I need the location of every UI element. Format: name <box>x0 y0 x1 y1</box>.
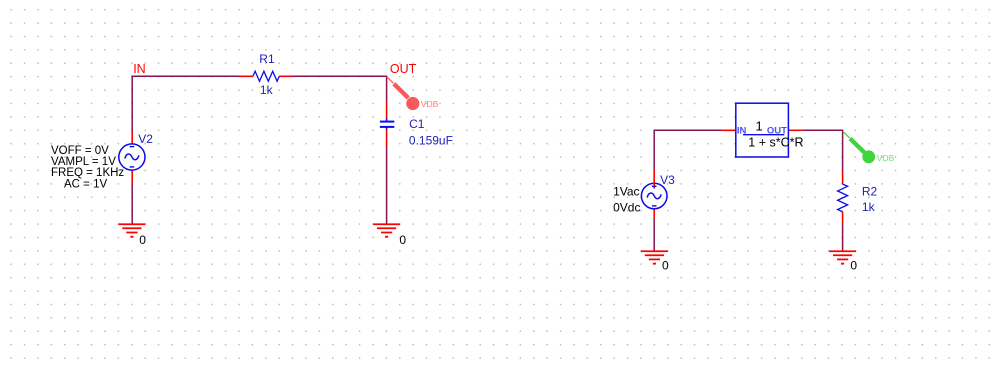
wire <box>653 219 655 251</box>
svg-text:0Vdc: 0Vdc <box>613 201 640 215</box>
svg-text:0: 0 <box>662 258 669 272</box>
svg-text:V3: V3 <box>660 173 675 187</box>
V3 attribute labels <box>613 185 640 215</box>
svg-text:1k: 1k <box>862 200 876 214</box>
svg-text:1Vac: 1Vac <box>613 185 639 199</box>
ground (V3) <box>641 251 669 272</box>
svg-text:OUT: OUT <box>390 62 417 76</box>
resistor R2 <box>838 171 878 225</box>
svg-text:R1: R1 <box>259 52 275 66</box>
wire <box>842 224 844 251</box>
wire <box>386 147 388 225</box>
voltage source V2 <box>119 131 153 183</box>
svg-text:1: 1 <box>756 118 763 133</box>
svg-text:V2: V2 <box>138 132 153 146</box>
wire <box>654 130 722 170</box>
wire <box>803 130 843 170</box>
probe VDB (red) <box>387 77 439 110</box>
svg-text:1k: 1k <box>260 83 274 97</box>
svg-text:VDB: VDB <box>421 99 439 109</box>
voltage source V3 <box>641 170 675 219</box>
ground (R2) <box>829 251 857 272</box>
svg-text:0: 0 <box>399 233 406 247</box>
svg-text:0: 0 <box>850 258 857 272</box>
probe VDB (green) <box>843 131 895 163</box>
V2 attribute labels <box>51 145 124 191</box>
wire <box>131 183 133 224</box>
capacitor C1 <box>380 102 453 147</box>
svg-text:AC = 1V: AC = 1V <box>64 179 107 191</box>
ground (V2) <box>118 224 146 247</box>
svg-text:0: 0 <box>139 233 146 247</box>
resistor R1 <box>240 52 292 97</box>
svg-text:C1: C1 <box>409 117 425 131</box>
wire <box>292 76 386 102</box>
svg-text:VDB: VDB <box>877 153 895 163</box>
svg-text:0.159uF: 0.159uF <box>409 133 453 147</box>
wire <box>132 76 240 130</box>
svg-text:R2: R2 <box>862 184 878 198</box>
svg-text:1 + s*C*R: 1 + s*C*R <box>748 135 803 149</box>
ground (C1) <box>373 224 406 247</box>
svg-text:IN: IN <box>133 62 146 76</box>
Laplace block U1 <box>722 103 803 157</box>
svg-text:FREQ = 1KHz: FREQ = 1KHz <box>51 167 124 179</box>
